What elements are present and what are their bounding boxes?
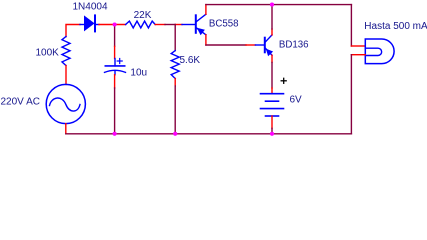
wire: 100K bottom to AC source (65, 66, 67, 85)
diode D1 1N4004 (80, 24, 84, 26)
lamp L1 (365, 39, 394, 64)
resistor R3 5.6K (171, 51, 179, 79)
svg-text:BC558: BC558 (209, 19, 239, 30)
transistor Q1 BC558 (195, 15, 197, 33)
capacitor C1 10u (114, 59, 116, 66)
svg-text:22K: 22K (134, 10, 152, 21)
svg-text:Hasta 500 mA: Hasta 500 mA (364, 21, 427, 32)
svg-text:100K: 100K (36, 48, 60, 59)
svg-text:220V AC: 220V AC (1, 97, 40, 108)
transistor Q2 BD136 (264, 38, 266, 53)
resistor R1 100K (62, 37, 70, 66)
wire: top rail (206, 4, 352, 6)
battery plus sign (281, 80, 286, 82)
wire: capacitor branch top (114, 25, 116, 47)
wire: AC top to 100K, corner to diode (66, 25, 80, 37)
wire: lamp return down right side (351, 54, 365, 56)
wire: BD136 emitter down to battery (271, 55, 273, 62)
wire: 22K to 5.6K junction (155, 24, 165, 26)
wire: 5.6K bottom to rail (174, 79, 176, 87)
resistor R2 22K (126, 21, 156, 28)
svg-text:6V: 6V (290, 95, 303, 106)
battery B1 6V (261, 93, 284, 95)
AC source V1 220V (46, 84, 85, 123)
junction node: diode-cap (113, 22, 117, 26)
wire: bottom rail (66, 133, 352, 135)
wire: BC558 collector down and right to BD136 base (205, 35, 207, 45)
wire: 5.6K top lead (174, 25, 176, 51)
svg-text:BD136: BD136 (279, 39, 309, 50)
wire: BC558 emitter up to top rail (205, 5, 207, 15)
wire: BD136 collector up to rail (271, 29, 273, 35)
svg-text:10u: 10u (130, 68, 147, 79)
wire: AC bottom to rail (65, 124, 67, 134)
junction node: bottom rail 5.6K (173, 132, 177, 136)
wire: capacitor bottom to rail (114, 75, 116, 88)
wire: right drop from top rail to lamp (350, 5, 352, 46)
wire: junction to BC558 base (175, 24, 182, 26)
wire: battery bottom to rail (271, 116, 273, 128)
junction node: bottom rail cap (113, 132, 117, 136)
junction node: bottom rail battery (270, 132, 274, 136)
wire: diode cathode to 22K with junction (99, 24, 126, 26)
svg-text:1N4004: 1N4004 (73, 1, 108, 12)
svg-text:5.6K: 5.6K (180, 55, 201, 66)
junction node: top rail BD136 (270, 3, 274, 7)
